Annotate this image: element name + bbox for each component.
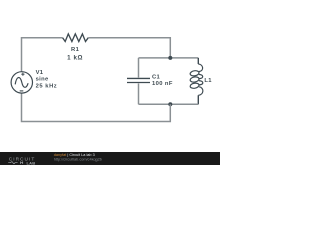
- minus sign: [20, 90, 24, 92]
- CircuitLab logo sine glyph: [8, 161, 23, 164]
- svg-text:1 kΩ: 1 kΩ: [67, 55, 83, 62]
- svg-text:sine: sine: [36, 77, 49, 83]
- svg-text:danyfat | Circuit La lab 3: danyfat | Circuit La lab 3: [54, 153, 95, 157]
- svg-text:C1: C1: [152, 75, 161, 81]
- wire top-left horizontal (V1 top to R1): [22, 38, 63, 72]
- svg-text:L1: L1: [204, 78, 212, 84]
- voltage source V1: [11, 72, 32, 93]
- plus sign: [21, 73, 24, 76]
- inductor L1: [190, 58, 203, 104]
- wire C1 top lead: [138, 58, 140, 78]
- wire tank bottom rail: [139, 103, 199, 105]
- wire tank top rail: [139, 57, 199, 59]
- svg-text:LAB: LAB: [27, 160, 36, 165]
- svg-text:V1: V1: [36, 70, 44, 76]
- svg-text:25 kHz: 25 kHz: [36, 83, 58, 89]
- junction B (bottom): [168, 102, 172, 106]
- wire bottom (junction B to V1 bottom): [22, 93, 171, 122]
- footer bar: [0, 152, 220, 165]
- wire C1 bottom lead: [138, 83, 140, 104]
- capacitor C1: [127, 78, 150, 82]
- wire top-right (R1 to junction A): [88, 38, 170, 58]
- svg-text:R1: R1: [71, 47, 80, 53]
- svg-text:http://circuitlab.com/c4kqg2b: http://circuitlab.com/c4kqg2b: [54, 158, 102, 162]
- svg-text:100 nF: 100 nF: [152, 81, 173, 87]
- junction A (top): [168, 56, 172, 60]
- resistor R1: [63, 34, 89, 42]
